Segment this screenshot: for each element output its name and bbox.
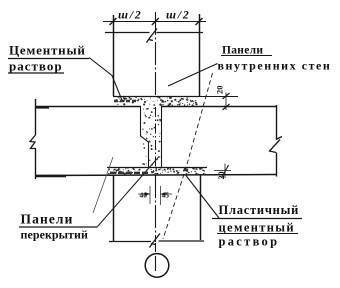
svg-text:20: 20: [215, 86, 225, 95]
svg-text:внутренних стен: внутренних стен: [218, 59, 332, 73]
svg-text:Панели: Панели: [222, 45, 263, 57]
tick left: [110, 18, 117, 25]
underline: paneli BL: [19, 226, 98, 228]
centerline inside joint: [155, 107, 157, 168]
dimension line sh: [103, 21, 206, 23]
leader: floor panels 1: [98, 157, 160, 227]
extension dash right of lower bed: [214, 170, 231, 172]
underline: plastichny: [212, 218, 302, 220]
leader: plastic mortar: [186, 176, 219, 219]
vertical joint mortar stipple: [142, 108, 161, 166]
lower wall panel right face: [200, 175, 202, 240]
lower 20-dim tick: [222, 165, 229, 178]
underline: cementny BR: [217, 233, 298, 235]
centerline through circle: [155, 243, 157, 271]
floor slabs top line: [36, 106, 277, 108]
leader: interior wall panels (top-right): [168, 64, 218, 87]
underline: rastvor TL: [8, 72, 64, 74]
underline: paneli TR: [221, 55, 272, 57]
leader: cement mortar (top-left): [89, 58, 123, 102]
joint gap mini-dimension lines: [138, 193, 172, 195]
svg-text:ш/2: ш/2: [118, 8, 142, 22]
underline: cementny: [8, 58, 89, 60]
svg-text:перекрытий: перекрытий: [21, 228, 88, 242]
lower wall panel left face: [113, 175, 115, 242]
bottom break (cut) line: [109, 240, 204, 243]
thick start of slab top line: [36, 106, 49, 108]
upper mortar bed dark streak: [114, 100, 136, 103]
upper 20-dim vertical: [225, 93, 227, 111]
svg-text:45: 45: [162, 191, 170, 200]
lower 20-dim vertical: [224, 164, 226, 179]
thick dark segment of slab bottom line: [36, 175, 66, 178]
svg-text:ш/2: ш/2: [166, 8, 190, 22]
upper 20-dim tick bottom: [223, 104, 230, 110]
svg-text:раствор: раствор: [219, 235, 280, 249]
mini-dim arrows: [145, 192, 166, 196]
extension line right of bed top: [199, 96, 238, 98]
floor slabs bottom line: [36, 175, 277, 176]
svg-text:Цементный: Цементный: [9, 43, 86, 58]
upper wall panel right face: [199, 14, 201, 96]
svg-text:20: 20: [217, 172, 226, 180]
centerline axis: [155, 12, 157, 242]
left slab end edge at joint: [141, 107, 149, 168]
top break (cut) line: [105, 32, 203, 34]
dashed construction leader: [163, 73, 213, 239]
bottom break zigzag: [150, 234, 161, 248]
svg-text:цементный: цементный: [219, 221, 295, 235]
right slab far end vertical: [276, 105, 278, 177]
joint gap mini-dimension right ext: [160, 186, 162, 205]
tick right: [196, 18, 203, 25]
upper wall panel left face: [113, 15, 115, 96]
svg-text:Панели: Панели: [21, 212, 74, 227]
right end break zigzag: [270, 137, 283, 153]
upper 20-dim tick top: [223, 93, 230, 99]
right slab end edge at joint: [161, 107, 163, 168]
tick center: [152, 18, 159, 25]
svg-text:Пластичный: Пластичный: [219, 203, 300, 217]
lower mortar bed stipple: [108, 168, 206, 175]
lower mortar bed dark streak: [110, 172, 150, 174]
lower mortar bed top line: [107, 167, 207, 169]
left end break zigzag: [30, 135, 36, 149]
leader: floor panels 2: [93, 157, 113, 213]
top break zigzag: [147, 29, 158, 43]
svg-text:раствор: раствор: [9, 59, 63, 74]
joint gap mini-dimension left ext: [149, 186, 151, 204]
left slab far end vertical: [35, 99, 37, 179]
upper mortar bed top line: [113, 96, 199, 98]
upper mortar bed stipple: [115, 97, 197, 107]
detail circle: [145, 254, 169, 278]
svg-text:40: 40: [140, 191, 148, 200]
